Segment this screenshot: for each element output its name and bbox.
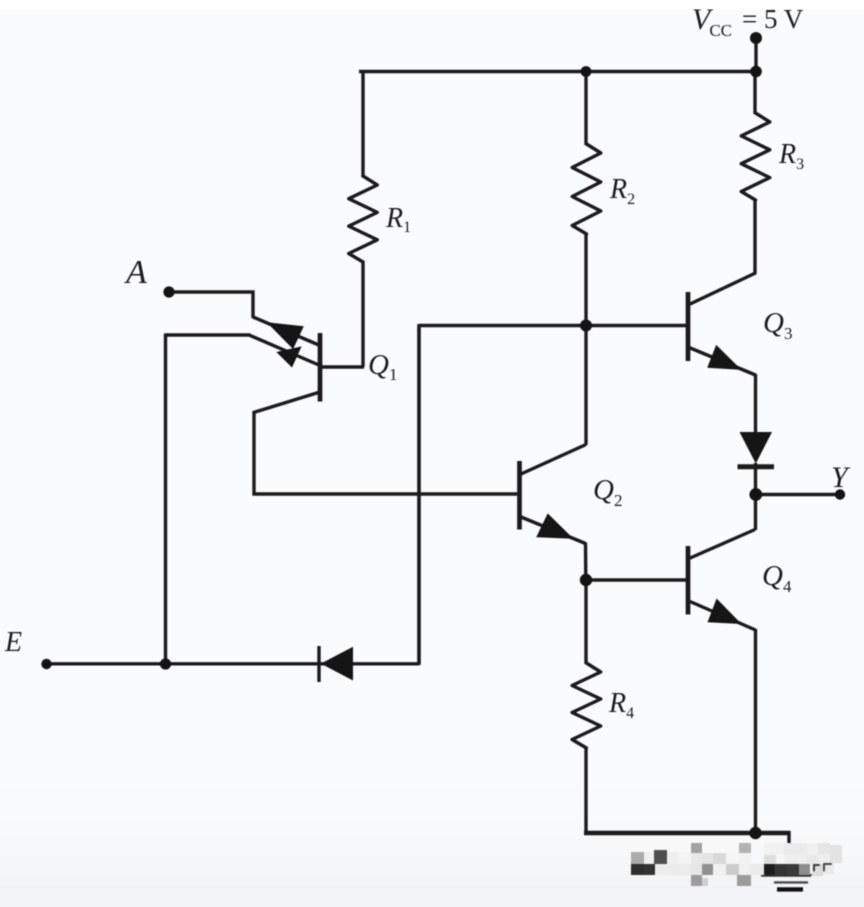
svg-text:E: E (4, 627, 22, 658)
svg-text:R4: R4 (608, 688, 634, 722)
svg-text:R1: R1 (385, 203, 411, 236)
svg-text:Q2: Q2 (593, 474, 622, 510)
svg-text:Q4: Q4 (762, 560, 792, 596)
svg-text:R2: R2 (609, 174, 635, 208)
svg-text:VCC: VCC (692, 3, 732, 40)
svg-text:R3: R3 (778, 139, 804, 173)
svg-text:A: A (124, 254, 147, 291)
svg-text:= 5 V: = 5 V (742, 4, 804, 34)
svg-text:Q1: Q1 (368, 349, 397, 384)
svg-text:Q3: Q3 (763, 307, 792, 343)
svg-text:Y: Y (831, 461, 851, 494)
